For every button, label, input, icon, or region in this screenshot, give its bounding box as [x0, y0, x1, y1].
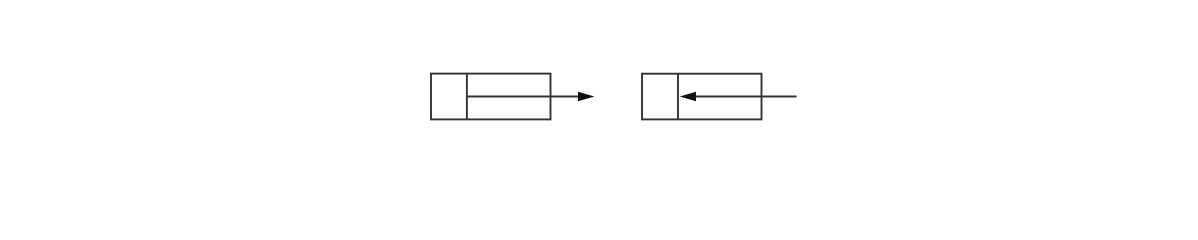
- arrowhead left: [680, 92, 696, 102]
- cylinder 1 piston: [466, 74, 468, 120]
- cylinder 2 rod wire (retract direction): [694, 96, 797, 98]
- cylinder 2 piston: [677, 74, 679, 120]
- cylinder 2 body: [642, 74, 762, 120]
- cylinder 1 rod wire (extend direction): [467, 96, 580, 98]
- cylinder 1 body: [431, 74, 551, 120]
- arrowhead right: [578, 92, 595, 102]
